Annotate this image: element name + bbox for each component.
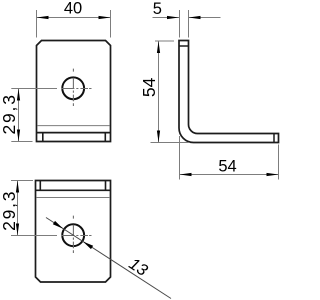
dimension 29,3 bottom: arrow top: [16, 181, 19, 193]
dimension 29,3 bottom: arrow bottom: [16, 224, 19, 236]
bottom view leg chamfer mark right: [105, 181, 107, 191]
front view leg end-face top edge: [37, 132, 111, 134]
dimension 54 vertical: extension line top: [155, 40, 174, 42]
svg-text:29,3: 29,3: [0, 190, 19, 231]
dimension 5: left tail line: [153, 17, 180, 19]
side view outline: [179, 41, 279, 143]
dimension 5: arrow left (pointing right at line): [167, 16, 179, 19]
dimension 54 horizontal: arrow left: [180, 173, 192, 176]
hole bottom view: [62, 224, 84, 246]
bottom view outline: [36, 181, 111, 283]
dimension 29,3 bottom: extension line top: [11, 180, 33, 182]
dimension 54 vertical: dimension line: [158, 41, 160, 143]
svg-text:54: 54: [218, 157, 236, 175]
dimension 29,3 front: arrow top: [17, 89, 20, 101]
hole diameter 13 leader line: [46, 218, 171, 299]
dimension 54 vertical: arrow bottom: [157, 131, 160, 143]
dimension 54 vertical: extension line bottom: [151, 142, 190, 144]
dimension 29,3 front: extension line bottom: [11, 141, 32, 143]
dimension 5: extension line left: [179, 10, 181, 38]
dimension 5: arrow right (pointing left at line): [189, 16, 201, 19]
dimension 40: extension line left: [36, 10, 38, 38]
dimension 5: right tail line: [189, 17, 221, 19]
dimension 29,3 front: dimension line: [18, 89, 20, 142]
svg-text:5: 5: [153, 0, 162, 18]
hole centerline vertical: [72, 69, 74, 106]
side view top chamfer line: [179, 45, 189, 47]
dimension 29,3 bottom: extension line bottom (to hole center): [11, 235, 57, 237]
dimension 29,3 front: arrow bottom: [17, 130, 20, 142]
dimension 40: arrow right: [99, 16, 111, 19]
hole diameter 13 arrow upper-left (tip on circle pointing in): [53, 221, 63, 229]
dimension 54 horizontal: dimension line: [180, 174, 279, 176]
dimension 29,3 bottom: dimension line: [17, 181, 19, 236]
dimension 54 horizontal: extension line left: [179, 136, 181, 180]
bottom view bend tangent line: [36, 197, 110, 199]
svg-text:40: 40: [64, 0, 82, 18]
dimension 54 vertical: arrow top: [157, 41, 160, 53]
front view outline: [37, 41, 111, 142]
dimension 54 horizontal: arrow right: [267, 173, 279, 176]
dimension 54 horizontal: extension line right: [278, 145, 280, 180]
svg-text:29,3: 29,3: [0, 93, 19, 134]
dimension 5: extension line right: [188, 10, 190, 38]
hole centerline horizontal: [53, 88, 92, 90]
front view bend tangent line: [37, 125, 109, 127]
front view leg chamfer mark left: [42, 133, 44, 142]
dimension 40: dimension line: [37, 17, 111, 19]
hole bottom centerline vertical: [72, 216, 74, 253]
hole diameter 13 arrow lower-right (tip on circle pointing in): [83, 242, 93, 250]
dimension 29,3 front: extension line top (to hole center): [11, 88, 57, 90]
bottom view leg end-face bottom edge: [36, 189, 111, 191]
bottom view leg chamfer mark left: [39, 181, 41, 191]
dimension 40: arrow left: [37, 16, 49, 19]
hole front view: [62, 77, 84, 99]
dimension 40: extension line right: [110, 10, 112, 38]
side view right end chamfer line: [273, 134, 275, 143]
front view leg chamfer mark right: [104, 133, 106, 142]
svg-text:54: 54: [139, 77, 159, 97]
hole bottom centerline horizontal: [53, 235, 92, 237]
